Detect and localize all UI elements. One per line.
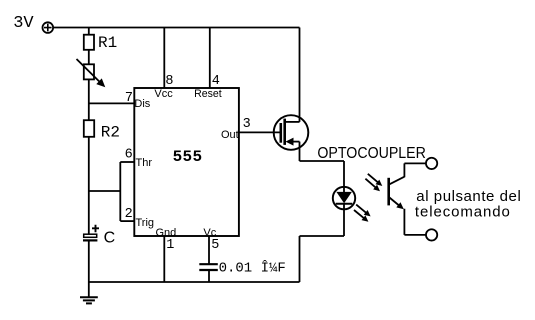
wire C to ground rail xyxy=(88,240,90,282)
light arrow 2 xyxy=(365,179,380,192)
svg-text:6: 6 xyxy=(125,148,133,163)
op-amp / IC 555 box xyxy=(134,88,239,236)
capacitor 0.01uF xyxy=(199,264,218,270)
wire top power rail xyxy=(53,27,300,29)
svg-text:C: C xyxy=(104,229,116,246)
svg-text:7: 7 xyxy=(125,91,133,106)
light arrow 3 xyxy=(356,205,370,217)
output terminal bottom xyxy=(426,229,437,240)
svg-text:OPTOCOUPLER: OPTOCOUPLER xyxy=(317,145,426,162)
svg-text:al pulsante del: al pulsante del xyxy=(416,188,521,205)
svg-text:Thr: Thr xyxy=(136,157,153,169)
wire Thr (pin6) xyxy=(120,161,134,163)
wire LED return to rail xyxy=(300,236,345,282)
wire bottom rail xyxy=(89,281,300,283)
resistor R1 xyxy=(84,35,94,50)
wire pin3 Out to gate xyxy=(239,131,281,133)
svg-text:Vc: Vc xyxy=(203,227,216,239)
wire R2 to capacitor C xyxy=(88,137,90,235)
wire Thr/Trig vertical connector xyxy=(119,162,121,221)
output terminal top xyxy=(426,158,437,169)
svg-text:4: 4 xyxy=(212,74,220,89)
wire pin5 cap to rail xyxy=(208,270,210,282)
potentiometer (variable resistor) xyxy=(77,59,105,86)
wire Dis (pin7) xyxy=(89,102,135,104)
svg-text:3: 3 xyxy=(243,117,251,132)
svg-text:Trig: Trig xyxy=(136,217,155,229)
wire pot to R2 xyxy=(88,79,90,120)
svg-text:0.01 Î¼F: 0.01 Î¼F xyxy=(219,259,286,277)
svg-text:telecomando: telecomando xyxy=(415,203,510,220)
wire pin5 Vc upper xyxy=(208,236,210,264)
wire pin8 Vcc xyxy=(163,28,165,89)
svg-text:Gnd: Gnd xyxy=(156,227,177,239)
svg-text:5: 5 xyxy=(211,238,219,253)
resistor R2 xyxy=(84,120,94,137)
wire right rail (drain) xyxy=(299,28,301,122)
ground xyxy=(80,282,98,303)
wire pin1 Gnd xyxy=(163,236,165,282)
svg-text:Vcc: Vcc xyxy=(154,88,173,100)
wire Trig (pin2) xyxy=(120,220,134,222)
wire source to LED xyxy=(300,161,345,186)
LED of optocoupler xyxy=(333,186,355,236)
wire R1 to potentiometer xyxy=(88,50,90,65)
svg-text:R2: R2 xyxy=(101,124,120,142)
svg-text:R1: R1 xyxy=(98,34,117,52)
wire pin4 Reset xyxy=(209,28,211,89)
svg-text:Dis: Dis xyxy=(134,98,150,110)
svg-text:Reset: Reset xyxy=(194,88,222,100)
wire rail to R1 xyxy=(88,28,90,35)
svg-text:2: 2 xyxy=(125,207,133,222)
capacitor C xyxy=(83,225,99,241)
svg-text:555: 555 xyxy=(173,148,203,166)
light arrow 1 xyxy=(368,174,383,186)
svg-text:3V: 3V xyxy=(13,14,34,33)
svg-text:1: 1 xyxy=(166,238,174,253)
svg-text:Out: Out xyxy=(221,129,239,141)
phototransistor of optocoupler xyxy=(389,163,426,235)
wire junction to Thr/Trig connector xyxy=(89,190,121,192)
light arrow 4 xyxy=(354,210,368,222)
battery terminal + xyxy=(43,22,54,33)
transistor Q1 MOSFET xyxy=(274,115,309,161)
